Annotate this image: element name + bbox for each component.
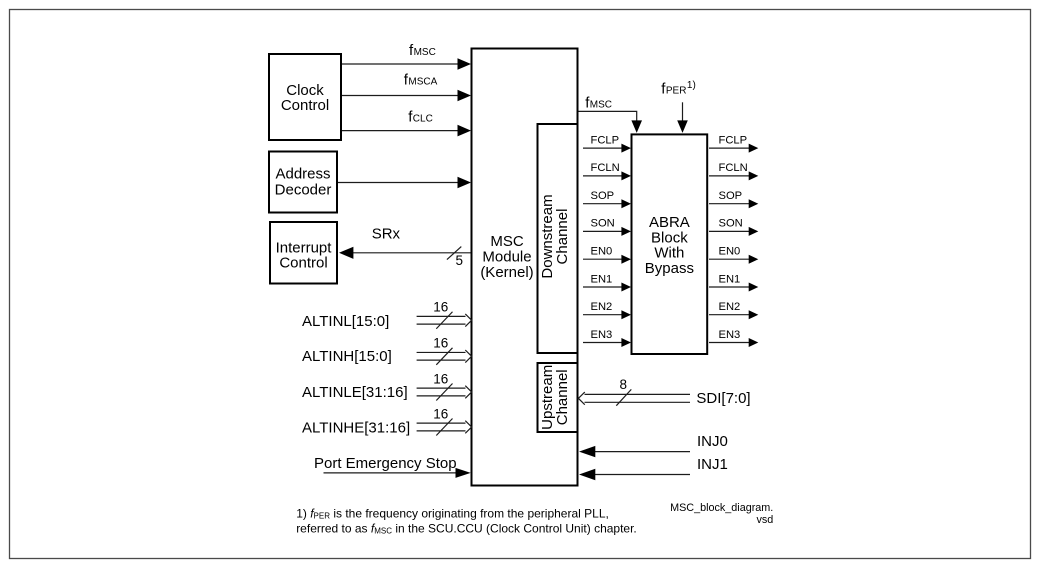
svg-text:SON: SON <box>591 218 615 230</box>
svg-text:16: 16 <box>433 300 448 315</box>
svg-text:Channel: Channel <box>554 209 571 265</box>
svg-text:16: 16 <box>433 336 448 351</box>
svg-text:PER: PER <box>666 86 687 97</box>
svg-text:EN3: EN3 <box>719 329 741 341</box>
svg-text:Control: Control <box>279 255 327 272</box>
svg-text:INJ0: INJ0 <box>697 433 728 450</box>
svg-text:Address: Address <box>275 166 330 183</box>
svg-text:MSC_block_diagram.: MSC_block_diagram. <box>670 502 773 514</box>
svg-text:SON: SON <box>719 218 743 230</box>
svg-text:8: 8 <box>619 377 627 392</box>
svg-text:SOP: SOP <box>719 190 743 202</box>
svg-text:MSC: MSC <box>414 47 436 58</box>
svg-text:16: 16 <box>433 371 448 386</box>
svg-text:ALTINLE[31:16]: ALTINLE[31:16] <box>302 384 408 401</box>
svg-text:FCLP: FCLP <box>719 134 748 146</box>
svg-text:EN0: EN0 <box>719 246 741 258</box>
svg-text:5: 5 <box>455 253 463 268</box>
svg-text:SOP: SOP <box>591 190 615 202</box>
svg-text:MSC: MSC <box>590 99 612 110</box>
svg-text:FCLP: FCLP <box>591 134 620 146</box>
svg-text:INJ1: INJ1 <box>697 456 728 473</box>
svg-text:FCLN: FCLN <box>719 162 748 174</box>
svg-text:Port Emergency Stop: Port Emergency Stop <box>314 455 457 472</box>
svg-text:SRx: SRx <box>372 226 401 243</box>
svg-text:EN1: EN1 <box>719 273 741 285</box>
svg-text:Decoder: Decoder <box>275 181 332 198</box>
svg-text:SDI[7:0]: SDI[7:0] <box>696 390 750 407</box>
svg-text:(Kernel): (Kernel) <box>480 264 533 281</box>
svg-text:EN2: EN2 <box>719 301 741 313</box>
svg-text:FCLN: FCLN <box>591 162 620 174</box>
svg-text:1): 1) <box>687 80 696 91</box>
svg-text:16: 16 <box>433 406 448 421</box>
svg-text:vsd: vsd <box>756 514 773 526</box>
svg-text:Bypass: Bypass <box>645 260 694 277</box>
svg-text:1) fPER is the frequency origi: 1) fPER is the frequency originating fro… <box>296 507 609 521</box>
svg-text:ALTINHE[31:16]: ALTINHE[31:16] <box>302 419 410 436</box>
svg-text:referred to as fMSC in the SCU: referred to as fMSC in the SCU.CCU (Cloc… <box>296 522 637 536</box>
svg-text:EN1: EN1 <box>591 273 613 285</box>
svg-text:Channel: Channel <box>554 369 571 425</box>
svg-text:EN0: EN0 <box>591 246 613 258</box>
svg-text:ALTINL[15:0]: ALTINL[15:0] <box>302 313 389 330</box>
svg-text:EN2: EN2 <box>591 301 613 313</box>
svg-text:EN3: EN3 <box>591 329 613 341</box>
svg-text:Control: Control <box>281 97 329 114</box>
svg-text:CLC: CLC <box>413 113 433 124</box>
svg-text:MSCA: MSCA <box>408 77 437 88</box>
svg-text:ALTINH[15:0]: ALTINH[15:0] <box>302 348 392 365</box>
